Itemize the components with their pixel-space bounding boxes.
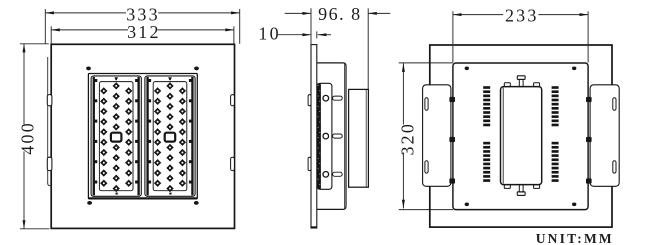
dimension 96.8: right arrow (outside) — [368, 12, 390, 14]
LED module 2 frame — [145, 76, 195, 196]
LED module 2 rail nubs — [148, 79, 191, 184]
front frame hinge tab upper left — [47, 95, 52, 106]
dimension 400: extension lines — [20, 43, 49, 45]
dimension 333: extension lines — [44, 9, 46, 44]
svg-text:233: 233 — [505, 6, 539, 26]
panel corner screw top-right — [194, 66, 199, 70]
dimension 233: dimension line with arrows — [453, 14, 503, 16]
svg-text:UNIT:MM: UNIT:MM — [536, 231, 614, 245]
front view: canopy light fixture, face side — [47, 44, 234, 228]
svg-text:10: 10 — [258, 23, 280, 43]
driver box (back view) — [501, 87, 542, 185]
front frame latch tab upper right (inside) — [231, 95, 235, 106]
LED module 1 right rail — [137, 77, 139, 195]
bracket left slot 2 — [425, 161, 428, 173]
cable gland top: cap — [517, 76, 525, 80]
dimension 312: extension lines — [50, 26, 52, 43]
seam clips right — [586, 97, 592, 102]
dimension 312: dimension line with arrows — [51, 29, 128, 31]
panel corner screw bottom-left — [87, 201, 92, 205]
front frame hinge tab lower left — [47, 157, 52, 170]
svg-text:96. 8: 96. 8 — [318, 4, 362, 24]
dimension 333: dimension line with arrows — [45, 12, 126, 14]
LED module 2 left rail — [146, 77, 148, 195]
dimension 400: dimension line with arrows — [23, 44, 25, 125]
bracket hole 2 — [323, 133, 329, 139]
front outer frame box — [51, 44, 234, 228]
mounting bracket plate (edge-on) — [317, 83, 332, 189]
LED module 2 right rail — [191, 77, 193, 195]
bracket left slot 1 — [425, 98, 428, 110]
driver box (side view) — [349, 89, 369, 187]
dimension 233: extension lines — [452, 11, 454, 62]
dimension 10: left arrow — [278, 34, 311, 36]
bracket right slot 2 — [613, 161, 616, 173]
panel corner screws (back) — [465, 67, 469, 71]
heatsink / LED panel stack (edge-on, dark) — [317, 83, 321, 189]
LED module 2 PCB plate — [153, 82, 187, 191]
panel corner screw bottom-right — [194, 201, 199, 205]
LED module 2 top screw tick — [168, 77, 171, 80]
LED module 2 center sensor square — [165, 133, 176, 142]
LED module 1 frame — [91, 76, 141, 196]
bracket slot tab 3 — [333, 172, 343, 176]
front frame plate (10mm) — [311, 45, 317, 228]
cable gland top: stem — [519, 79, 523, 86]
dimension 10: right arrow — [318, 34, 331, 36]
driver box ear bottom-left — [504, 185, 510, 189]
svg-text:320: 320 — [398, 122, 418, 156]
LED module 2 bottom screw tick — [169, 193, 171, 195]
back view of fixture — [423, 45, 620, 227]
LED module 2 LED array — [154, 82, 186, 192]
dimension 96.8: left arrow (outside) — [285, 12, 311, 14]
heatsink stipple dots — [318, 85, 321, 185]
dimension 320: extension segments — [399, 62, 453, 64]
dimension 10: extension line — [316, 31, 318, 38]
driver box ear top-left — [504, 83, 510, 87]
driver box ear top-right — [534, 83, 540, 87]
glass panel frame bottom thick edge — [89, 197, 198, 199]
side view of fixture — [308, 45, 368, 228]
bracket hole 3 — [323, 172, 329, 178]
front frame latch tab lower right (inside) — [231, 157, 235, 170]
cable gland bottom: stem — [519, 185, 523, 192]
hinge tab upper (side view) — [308, 95, 311, 106]
bracket slot tab 2 — [333, 134, 343, 138]
LED module 1 rail nubs — [95, 79, 138, 184]
LED module 1 bottom screw tick — [116, 193, 118, 195]
mounting bracket right — [590, 85, 619, 187]
bracket slot tab 1 — [333, 96, 343, 100]
vent slots — [483, 86, 558, 182]
door hinge edge line (left) — [47, 57, 49, 184]
bracket right slot 1 — [613, 98, 616, 110]
rear frame inner edge line — [344, 64, 346, 209]
back outer frame square — [430, 45, 612, 227]
seam clips left — [449, 97, 455, 102]
LED module 1 top screw tick — [115, 77, 118, 80]
driver box inner edge line — [365, 90, 367, 187]
cable gland bottom: cap — [517, 192, 525, 196]
panel corner screw top-left — [86, 66, 91, 70]
glass panel frame — [88, 74, 197, 199]
LED module 1 center sensor square — [111, 133, 122, 142]
dimension 96.8: extension lines — [310, 8, 312, 44]
rear frame profile — [317, 63, 346, 210]
svg-text:400: 400 — [18, 121, 38, 155]
back inner panel — [453, 63, 588, 210]
dimension 320: dimension line with arrows — [402, 63, 404, 124]
driver box inner edge — [502, 88, 504, 184]
LED module 1 left rail — [93, 77, 95, 195]
bracket hole 1 — [323, 95, 329, 101]
hinge tab lower (side view) — [308, 157, 311, 170]
LED module 1 PCB plate — [99, 82, 133, 191]
driver box ear bottom-right — [534, 185, 540, 189]
svg-text:312: 312 — [127, 22, 161, 42]
LED module 1 LED array — [100, 82, 132, 192]
front plate bottom thick edge — [311, 226, 317, 228]
mounting bracket left — [423, 85, 451, 187]
